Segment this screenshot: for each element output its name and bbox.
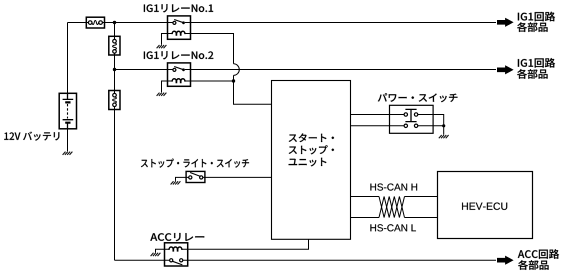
label IG1 relay No.1 bbox=[144, 4, 213, 12]
arrow IG1 circuit 2 bbox=[497, 65, 514, 74]
fuse F1 (main fusible link) bbox=[86, 17, 104, 28]
wire relay2 output to IG1 arrow 2 bbox=[185, 69, 496, 71]
wire ACC relay coil to unit bbox=[182, 239, 309, 249]
wire relay1 output to IG1 arrow bbox=[185, 22, 496, 24]
label unit line3 bbox=[289, 158, 327, 167]
wire HS-CAN H bbox=[351, 196, 438, 198]
wire unit to power switch (lower) bbox=[351, 125, 405, 127]
wire relay2 coil to ground bbox=[162, 81, 173, 92]
wire ACC relay output to ACC arrow bbox=[183, 259, 496, 261]
wire relay1 coil to unit (with hop) bbox=[185, 34, 272, 105]
ACC relay box bbox=[165, 243, 188, 266]
wire stop light switch to unit bbox=[203, 176, 272, 178]
wire bus to relay2 bbox=[115, 69, 174, 71]
IG1 relay No.1 switch contact (open circle) bbox=[173, 21, 176, 24]
fuse F3 (vertical) bbox=[109, 91, 120, 110]
label IG1 circuit 1 line1 bbox=[518, 12, 555, 22]
label unit line2 bbox=[289, 145, 334, 154]
label IG1 circuit 2 line1 bbox=[518, 58, 555, 68]
wire battery negative to ground bbox=[67, 129, 69, 152]
IG1 relay No.2 coil bbox=[172, 79, 185, 82]
ground relay2 bbox=[157, 93, 167, 96]
power switch contacts bbox=[404, 113, 407, 116]
ground stop light switch bbox=[171, 181, 181, 184]
label ACC relay bbox=[150, 233, 204, 241]
label HEV-ECU bbox=[462, 203, 507, 210]
relay box IG1 relay No.2 bbox=[168, 63, 191, 86]
relay box IG1 relay No.1 bbox=[168, 16, 191, 39]
start-stop unit box bbox=[272, 81, 351, 240]
wire battery positive to main bus bbox=[68, 23, 89, 94]
label stop light switch bbox=[141, 159, 249, 168]
wire main bus fuse to relay1 bbox=[102, 22, 173, 24]
wire unit to power switch (upper) bbox=[351, 114, 405, 116]
label 12V battery bbox=[4, 132, 59, 141]
power switch box bbox=[390, 105, 434, 133]
ACC relay coil bbox=[169, 247, 182, 250]
power switch plunger bbox=[405, 109, 416, 121]
IG1 relay No.2 switch contact (open circle) bbox=[173, 68, 176, 71]
twisted pair symbol bbox=[379, 197, 405, 218]
wire vertical feed bus bbox=[114, 23, 116, 261]
label ACC circuit line2 bbox=[518, 260, 548, 270]
wire power switch to ground bbox=[418, 115, 444, 135]
ground relay1 bbox=[157, 45, 167, 48]
ACC relay switch blade bbox=[173, 261, 183, 265]
wire bus to ACC relay switch bbox=[115, 259, 170, 261]
IG1 relay No.1 coil bbox=[172, 31, 185, 34]
node junction bus/fuse bbox=[113, 21, 116, 24]
stop light switch blade bbox=[190, 173, 201, 177]
arrow ACC circuit bbox=[497, 256, 514, 265]
arrow IG1 circuit 1 bbox=[497, 18, 514, 27]
label IG1 relay No.2 bbox=[144, 51, 213, 59]
wire relay1 coil to ground bbox=[162, 34, 173, 45]
label ACC circuit line1 bbox=[518, 249, 559, 259]
wire hop over relay2 output bbox=[234, 64, 240, 76]
wire relay2 coil to junction bbox=[185, 80, 234, 82]
node power switch ground junction bbox=[442, 124, 445, 127]
HEV-ECU box bbox=[438, 172, 533, 239]
node junction coil bus bbox=[232, 79, 235, 82]
IG1 relay No.1 switch blade bbox=[174, 20, 183, 23]
wire HS-CAN L bbox=[351, 217, 438, 219]
battery 12V bbox=[59, 93, 76, 129]
stop light switch contacts bbox=[189, 176, 192, 179]
ACC relay switch contacts bbox=[170, 259, 173, 262]
wire stop light switch to ground bbox=[176, 177, 189, 181]
wire ACC relay coil to ground bbox=[156, 249, 169, 252]
label IG1 circuit 2 line2 bbox=[517, 69, 547, 79]
ground power switch bbox=[439, 135, 449, 138]
IG1 relay No.1 switch contact (dot) bbox=[182, 21, 185, 24]
node junction bus/relay2 bbox=[113, 68, 116, 71]
IG1 relay No.2 switch blade bbox=[174, 67, 183, 70]
ground ACC relay bbox=[151, 253, 161, 256]
label HS-CAN L bbox=[370, 224, 416, 231]
label IG1 circuit 1 line2 bbox=[517, 22, 547, 32]
label HS-CAN H bbox=[370, 184, 417, 191]
IG1 relay No.2 switch contact (dot) bbox=[182, 68, 185, 71]
label power switch bbox=[378, 93, 458, 102]
stop light switch box bbox=[186, 171, 205, 182]
fuse F2 (vertical) bbox=[109, 36, 120, 55]
label unit line1 bbox=[289, 133, 334, 142]
ground battery bbox=[63, 152, 73, 155]
